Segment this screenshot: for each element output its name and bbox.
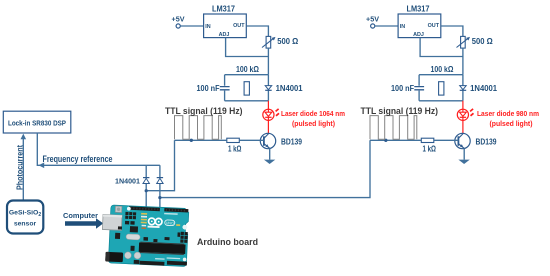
diode 1N4001 (left top) bbox=[265, 84, 303, 93]
LM317 U2 (right) bbox=[398, 5, 441, 39]
ARDUINO tiny text bar bbox=[148, 226, 160, 228]
svg-text:LM317: LM317 bbox=[212, 5, 235, 14]
IC pin legs bbox=[140, 242, 184, 255]
svg-text:BD139: BD139 bbox=[476, 137, 498, 146]
node junction D3/left TTL bbox=[145, 189, 148, 192]
svg-text:500 Ω: 500 Ω bbox=[472, 37, 493, 46]
svg-text:(pulsed light): (pulsed light) bbox=[292, 119, 336, 128]
wire OUT to potentiometer (right) bbox=[441, 26, 463, 36]
svg-text:1N4001: 1N4001 bbox=[470, 84, 498, 93]
wire pot bottom down bbox=[267, 48, 269, 75]
top pin header A bbox=[129, 206, 160, 211]
node junction D4/right TTL bbox=[158, 196, 161, 199]
+5V terminal (right) bbox=[366, 15, 380, 29]
resistor 1 kOhm (right) bbox=[421, 138, 436, 153]
svg-text:OUT: OUT bbox=[233, 23, 245, 29]
ICSP header 2x3 (usb side) bbox=[125, 212, 136, 219]
svg-text:100 nF: 100 nF bbox=[197, 84, 220, 93]
svg-text:100 kΩ: 100 kΩ bbox=[431, 65, 454, 74]
svg-text:Photocurrent: Photocurrent bbox=[15, 145, 24, 190]
svg-text:(pulsed light): (pulsed light) bbox=[490, 119, 534, 128]
potentiometer 500 ohm (left) bbox=[262, 36, 298, 48]
Lock-in SR830 DSP box bbox=[3, 111, 71, 133]
DIGITAL silk text bbox=[164, 213, 178, 215]
top pin header B bbox=[164, 208, 188, 212]
mounting hole right bbox=[182, 225, 187, 230]
svg-text:1 kΩ: 1 kΩ bbox=[228, 145, 242, 154]
svg-text:BD139: BD139 bbox=[281, 137, 303, 146]
resistor 1 kOhm (left) bbox=[227, 138, 242, 153]
yellow part near hole bbox=[176, 224, 180, 226]
laser diode 980 nm bbox=[457, 109, 539, 128]
svg-text:Frequency reference: Frequency reference bbox=[43, 154, 113, 164]
wire diode branch 2 (right) bbox=[159, 165, 161, 207]
+5V terminal (left) bbox=[172, 15, 186, 29]
svg-text:1N4001: 1N4001 bbox=[276, 84, 304, 93]
wire parallel network frame (right) bbox=[419, 75, 463, 101]
arrow computer to arduino bbox=[65, 218, 103, 229]
bottom pin header A bbox=[140, 261, 165, 266]
small caps pair bbox=[125, 221, 129, 225]
ground (left) bbox=[264, 148, 275, 164]
bottom small parts bbox=[134, 260, 140, 264]
wire TTL baseline to transistor base (left) bbox=[175, 139, 264, 141]
UNO badge bbox=[165, 220, 175, 226]
USB connector bbox=[102, 214, 122, 230]
wire +5V to LM317 IN bbox=[180, 25, 203, 27]
svg-text:IN: IN bbox=[205, 24, 210, 30]
red wire to laser diode (left) bbox=[267, 101, 269, 134]
svg-text:500 Ω: 500 Ω bbox=[277, 37, 298, 46]
Arduino board bbox=[101, 205, 190, 267]
small transistor part bbox=[177, 232, 180, 237]
diode 1N4001 D3 (to freq ref, left) bbox=[115, 177, 149, 186]
svg-text:Laser diode 980 nm: Laser diode 980 nm bbox=[477, 109, 539, 118]
wire photocurrent (sensor to lock-in) bbox=[22, 139, 24, 201]
diode 1N4001 (right top) bbox=[460, 84, 498, 93]
voltage regulator bbox=[130, 226, 138, 232]
svg-text:ADJ: ADJ bbox=[413, 32, 424, 38]
wire pot bottom down (right) bbox=[462, 48, 464, 75]
transistor Q2 BD139 (right) bbox=[455, 133, 497, 148]
wire TTL down to bottom bus (right) bbox=[160, 140, 370, 197]
svg-text:Computer: Computer bbox=[63, 211, 98, 220]
main IC DIP bbox=[139, 243, 186, 254]
svg-text:LM317: LM317 bbox=[407, 5, 430, 14]
bottom pin header B bbox=[167, 261, 187, 266]
svg-text:100 kΩ: 100 kΩ bbox=[236, 65, 259, 74]
svg-text:+5V: +5V bbox=[172, 15, 186, 24]
wire frequency reference bbox=[37, 133, 160, 165]
wire TTL baseline to transistor base (right) bbox=[370, 139, 458, 141]
svg-text:1N4001: 1N4001 bbox=[115, 177, 141, 186]
svg-text:+5V: +5V bbox=[366, 15, 380, 24]
laser diode 1064 nm bbox=[263, 109, 345, 128]
crystal oscillator bbox=[126, 234, 140, 240]
wire ADJ down and right (right) bbox=[420, 38, 463, 57]
wire +5V to LM317 IN (right) bbox=[375, 25, 398, 27]
resistor 100 kOhm (right) bbox=[439, 82, 444, 95]
node junction dot (left TTL) bbox=[190, 139, 193, 142]
POWER/ANALOG silk strips bbox=[155, 258, 165, 260]
svg-text:OUT: OUT bbox=[428, 23, 440, 29]
LM317 U1 (left) bbox=[204, 5, 247, 39]
wire diode branch 1 (left) bbox=[145, 165, 147, 206]
transistor Q1 BD139 (left) bbox=[260, 133, 302, 148]
svg-text:Arduino board: Arduino board bbox=[197, 237, 258, 248]
LED/resistor tiny parts bbox=[140, 213, 147, 229]
arrow photocurrent up bbox=[21, 134, 27, 140]
header pin ticks bbox=[130, 207, 185, 211]
small parts mid bbox=[118, 226, 122, 229]
board PCB bbox=[108, 205, 189, 266]
ICSP header 2x3 right bbox=[180, 232, 188, 243]
wire ADJ down and right bbox=[226, 38, 269, 57]
svg-text:sensor: sensor bbox=[14, 221, 37, 228]
diode 1N4001 D4 bbox=[157, 178, 163, 184]
TTL signal waveform (right) bbox=[370, 116, 417, 140]
svg-text:TTL signal (119 Hz): TTL signal (119 Hz) bbox=[361, 106, 439, 116]
mounting hole bottom right bbox=[183, 258, 187, 262]
arduino infinity logo bbox=[148, 218, 162, 225]
svg-text:Laser diode 1064 nm: Laser diode 1064 nm bbox=[281, 109, 345, 118]
arrow frequency reference left bbox=[39, 163, 45, 169]
power jack bbox=[105, 252, 123, 262]
svg-text:UNO: UNO bbox=[166, 221, 174, 225]
capacitor 100 nF (left) bbox=[197, 84, 230, 93]
svg-text:TTL signal (119 Hz): TTL signal (119 Hz) bbox=[165, 106, 243, 116]
TTL signal waveform (left) bbox=[175, 116, 222, 140]
red wire to laser diode (right) bbox=[462, 101, 464, 134]
node junction dot (right TTL) bbox=[384, 139, 387, 142]
reset button bbox=[115, 206, 122, 213]
capacitor 100 nF (right) bbox=[391, 84, 424, 93]
wire parallel network frame (left) bbox=[225, 75, 269, 101]
svg-text:100 nF: 100 nF bbox=[391, 84, 414, 93]
resistor 100 kOhm (left) bbox=[244, 82, 249, 95]
electrolytic caps bbox=[124, 252, 131, 259]
svg-text:Lock-in SR830 DSP: Lock-in SR830 DSP bbox=[8, 119, 66, 128]
svg-text:ADJ: ADJ bbox=[219, 32, 230, 38]
svg-text:1 kΩ: 1 kΩ bbox=[423, 145, 437, 154]
potentiometer 500 ohm (right) bbox=[457, 36, 493, 48]
ground (right) bbox=[458, 148, 469, 164]
svg-text:IN: IN bbox=[400, 24, 405, 30]
wire OUT to potentiometer bbox=[246, 26, 268, 36]
GeSi-SiO2 sensor box bbox=[7, 201, 43, 234]
mounting hole top left bbox=[127, 207, 131, 211]
wire TTL down to diode node (left) bbox=[146, 140, 174, 190]
